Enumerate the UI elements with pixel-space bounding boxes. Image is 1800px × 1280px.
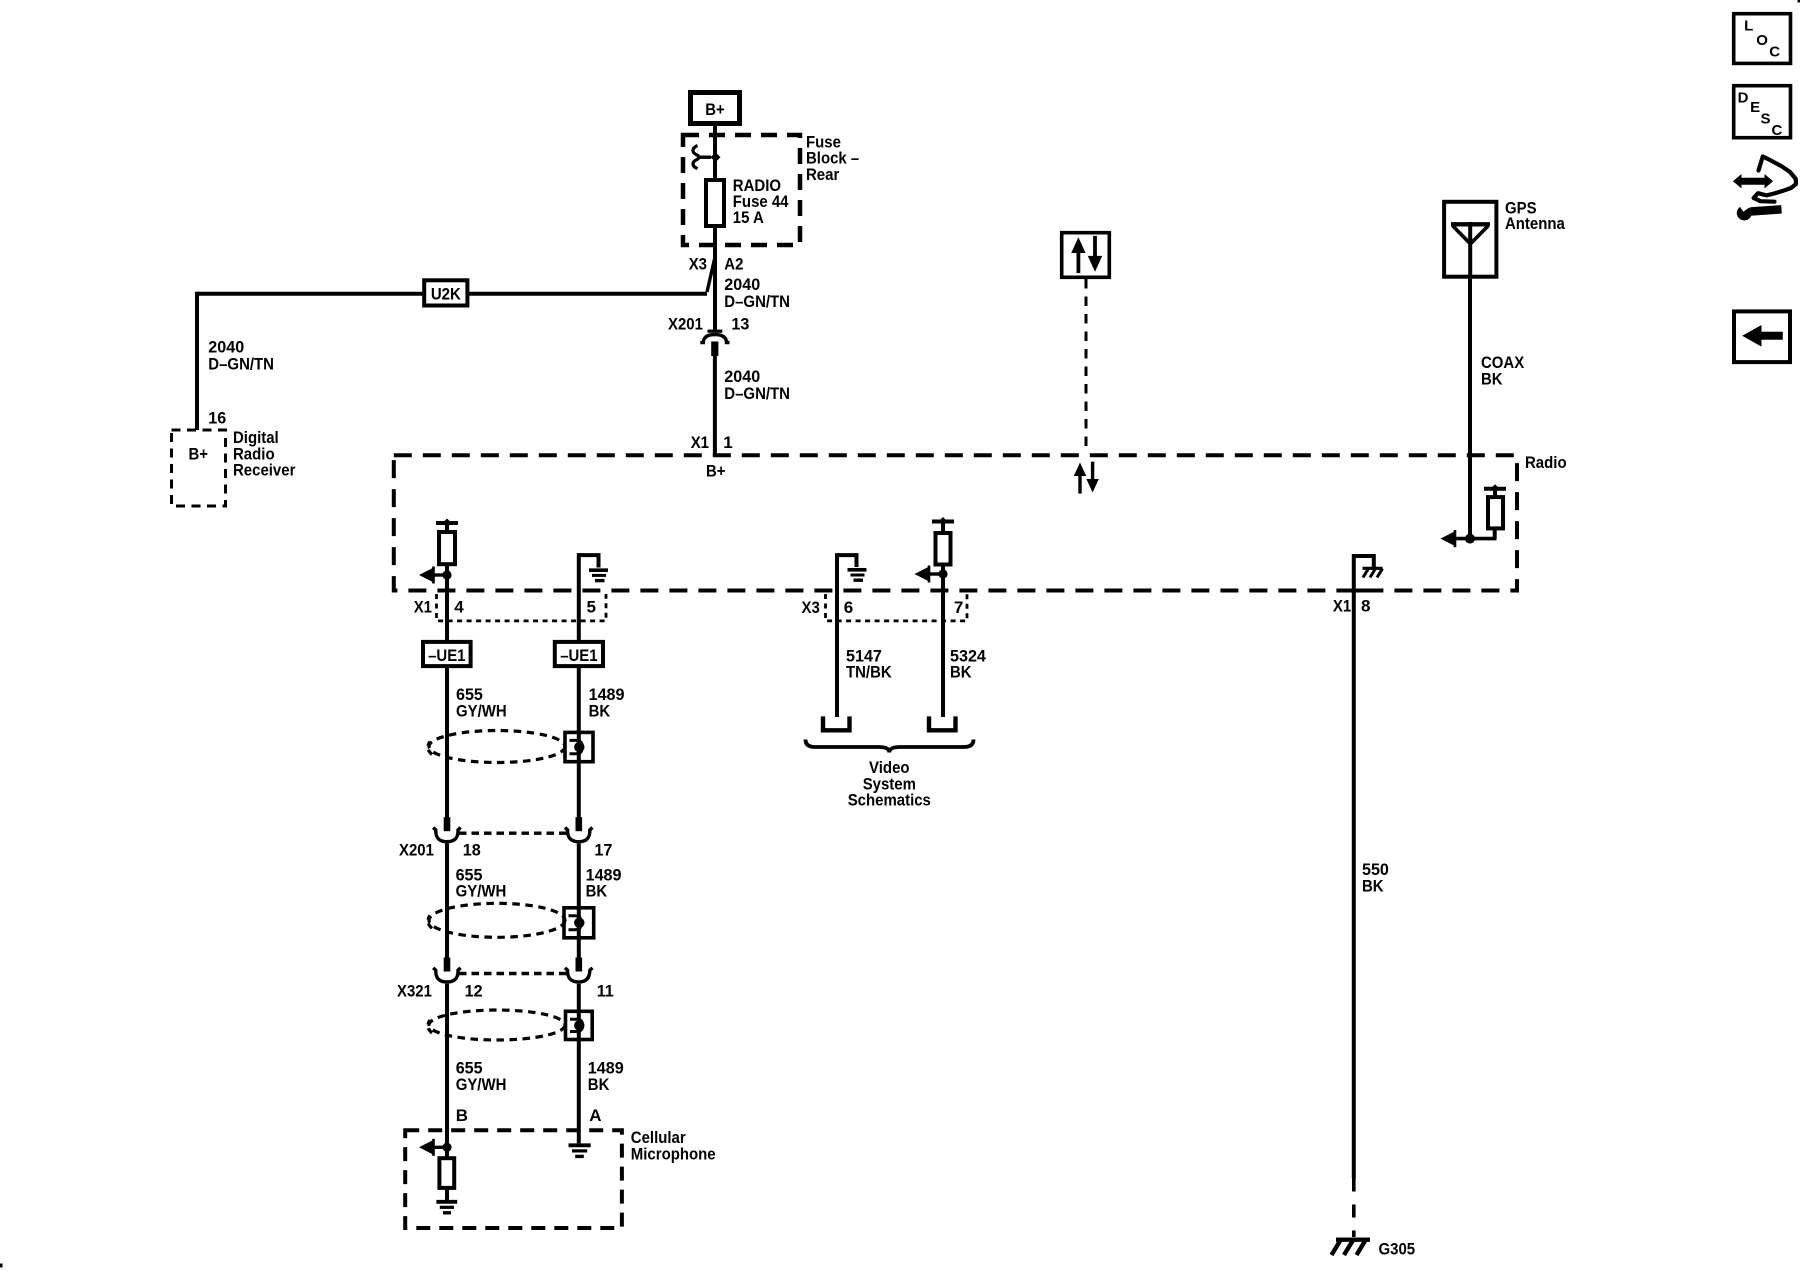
twisted pair ellipse 2: [429, 903, 565, 937]
svg-text:Antenna: Antenna: [1505, 214, 1565, 233]
wire 655 GY/WH segment 2: [445, 843, 449, 958]
fuse block dashed box (Fuse Block - Rear): [683, 135, 800, 245]
svg-text:Radio: Radio: [1525, 453, 1567, 472]
svg-text:G305: G305: [1379, 1239, 1416, 1258]
serial data two-way arrow box: [1062, 233, 1110, 278]
back-arrow box: [1734, 311, 1790, 362]
svg-text:X321: X321: [397, 981, 432, 1000]
connector X201-18 male terminal: [444, 817, 451, 831]
svg-text:X1: X1: [1333, 597, 1351, 616]
twisted pair junction box 1: [565, 732, 593, 761]
radio internal resistor terminal hat (X3-7 branch): [932, 520, 954, 524]
svg-text:BK: BK: [586, 881, 608, 900]
small down arrow at radio boundary: [1091, 462, 1094, 481]
svg-text:A2: A2: [724, 254, 743, 273]
svg-text:X1: X1: [691, 433, 709, 452]
coax wire from GPS antenna: [1468, 279, 1472, 539]
earth ground symbol (mic B branch): [436, 1200, 457, 1204]
radio internal resistor terminal hat (X1-4 branch): [436, 521, 458, 525]
junction node coax to resistor: [1452, 537, 1497, 541]
svg-text:X201: X201: [668, 314, 703, 333]
connector X321-11 male terminal: [576, 958, 583, 972]
svg-text:D–GN/TN: D–GN/TN: [724, 384, 790, 403]
U2K option box: [424, 280, 467, 305]
wire slant joining at X3 A2 pin: [707, 257, 715, 292]
svg-text:C: C: [1772, 122, 1783, 139]
svg-text:O: O: [1756, 32, 1768, 49]
svg-text:12: 12: [465, 981, 483, 1000]
twisted pair ellipse 3: [429, 1010, 565, 1040]
svg-text:6: 6: [844, 598, 853, 617]
fuse RADIO Fuse 44 15A: [706, 180, 724, 226]
diagnostic arrow-wrench icon: [1754, 157, 1796, 202]
svg-text:E: E: [1750, 99, 1760, 116]
brace for Video System Schematics: [806, 740, 974, 753]
video terminal half-box (pin 7 wire): [929, 716, 956, 730]
wire 1489 BK segment 2: [577, 843, 581, 958]
small up arrow at radio boundary: [1078, 474, 1081, 494]
connector X321-11 female cup: [565, 968, 592, 982]
twisted pair ellipse 1: [429, 731, 565, 763]
Cellular Microphone dashed box: [405, 1130, 622, 1228]
svg-text:C: C: [1769, 43, 1780, 60]
earth ground symbol (X3-6 branch): [848, 568, 867, 572]
earth ground symbol (X1-5 branch): [589, 568, 608, 572]
LOC reference box: [1734, 14, 1791, 64]
radio internal chassis ground hook (X1-8): [1354, 556, 1374, 568]
mic internal resistor: [445, 1147, 449, 1158]
junction node on X1-4 branch: [442, 570, 451, 579]
svg-text:BK: BK: [1481, 369, 1503, 388]
junction node mic B lead: [442, 1143, 451, 1152]
connector X201 pin 13 female T-bar and dome: [708, 330, 723, 333]
bus tap horizontal lead with diamond at wire: [698, 155, 711, 158]
svg-text:Receiver: Receiver: [233, 461, 296, 480]
svg-text:X1: X1: [414, 598, 432, 617]
connector X321-12 female cup: [433, 968, 460, 982]
antenna symbol: [1451, 222, 1490, 226]
page corner mark top-right: [1798, 0, 1800, 3]
svg-text:B: B: [456, 1106, 468, 1125]
Digital Radio Receiver dashed box: [172, 430, 226, 506]
connector X3 dotted box (pins 6,7): [826, 594, 968, 621]
svg-text:Schematics: Schematics: [848, 791, 931, 810]
ground G305 chassis symbol: [1332, 1239, 1371, 1256]
svg-text:BK: BK: [950, 663, 972, 682]
svg-text:13: 13: [731, 314, 749, 333]
wire 655 GY/WH segment 1: [445, 666, 449, 818]
internal arrow lead pointing left (X1-4 branch): [431, 573, 447, 576]
page corner mark: [0, 1264, 3, 1268]
connector X201-17 male terminal: [576, 817, 583, 831]
twisted pair junction box 2: [564, 908, 594, 938]
radio internal ground hook (X3-6 branch): [837, 555, 857, 567]
connector X321-12 male terminal: [444, 958, 451, 972]
wire 1489 BK segment 3: [577, 984, 581, 1144]
svg-text:X201: X201: [399, 841, 434, 860]
svg-text:17: 17: [594, 841, 612, 860]
connector X1 dotted box (pins 4,5): [437, 594, 607, 621]
chassis ground symbol (X1-8 internal): [1363, 567, 1383, 570]
video terminal half-box (pin 6 wire): [823, 716, 850, 730]
svg-text:B+: B+: [189, 445, 209, 464]
svg-text:U2K: U2K: [431, 284, 462, 303]
svg-text:S: S: [1761, 111, 1771, 128]
wire left vertical to Digital Radio Receiver: [195, 292, 199, 430]
wrench of icon: [1751, 209, 1782, 211]
B+ power symbol box: [691, 93, 740, 124]
svg-text:B+: B+: [706, 462, 726, 481]
wire X3-6 vertical through connector to video terminal: [835, 553, 839, 717]
svg-text:BK: BK: [1362, 877, 1384, 896]
wire X1-5 branch vertical: [577, 553, 581, 591]
option box -UE1 (right): [555, 642, 603, 666]
svg-text:GY/WH: GY/WH: [456, 701, 507, 720]
svg-text:D–GN/TN: D–GN/TN: [724, 292, 790, 311]
svg-text:GY/WH: GY/WH: [456, 1075, 507, 1094]
svg-text:16: 16: [208, 408, 226, 427]
twisted pair junction box 3: [566, 1011, 593, 1039]
svg-text:4: 4: [454, 598, 464, 617]
wire X1-4 to -UE1: [445, 591, 449, 640]
svg-text:X3: X3: [689, 254, 707, 273]
wire X1-8 (550 BK) down to G305: [1352, 554, 1356, 1179]
internal arrow pointing left (coax branch): [1441, 531, 1456, 546]
wire fuse to connector X3 A2: [713, 226, 717, 330]
svg-text:BK: BK: [589, 701, 611, 720]
svg-text:A: A: [589, 1106, 601, 1125]
wire X201-13 to radio X1-1: [713, 356, 717, 456]
svg-text:D–GN/TN: D–GN/TN: [208, 354, 274, 373]
wire X1-5 to -UE1: [577, 591, 581, 640]
dashed link line to radio: [1085, 279, 1088, 454]
pin tick X1-8 at radio box edge: [1354, 589, 1368, 593]
svg-text:–UE1: –UE1: [560, 646, 597, 665]
connector X201 dashed link: [459, 832, 567, 835]
connector X201 pin 13 male terminal: [711, 342, 718, 357]
DESC reference box: [1734, 86, 1791, 138]
svg-text:TN/BK: TN/BK: [846, 663, 892, 682]
connector X201-17 female cup: [565, 828, 592, 842]
svg-text:11: 11: [597, 981, 614, 1000]
svg-text:Microphone: Microphone: [631, 1144, 716, 1163]
radio internal ground hook (X1-5 branch): [579, 555, 599, 567]
option box -UE1 (left): [423, 642, 471, 666]
svg-text:15 A: 15 A: [733, 208, 764, 227]
svg-text:7: 7: [954, 598, 963, 617]
connector X321 dashed link: [459, 972, 567, 975]
up arrow in box: [1077, 252, 1081, 273]
svg-text:GY/WH: GY/WH: [456, 881, 507, 900]
radio internal resistor terminal hat (coax branch): [1484, 487, 1506, 491]
svg-text:L: L: [1744, 18, 1753, 35]
connector X201-18 female cup: [433, 828, 460, 842]
svg-text:B+: B+: [705, 100, 725, 119]
svg-text:1: 1: [723, 433, 732, 452]
double-headed arrow of icon: [1740, 178, 1766, 185]
svg-text:Rear: Rear: [806, 165, 840, 184]
svg-text:5: 5: [587, 598, 596, 617]
radio internal resistor (coax branch): [1488, 497, 1503, 528]
wire 1489 BK segment 1: [577, 666, 581, 818]
Radio dashed box: [394, 455, 1517, 590]
wire 655 GY/WH segment 3: [445, 984, 449, 1148]
svg-text:X3: X3: [802, 598, 820, 617]
wire B+ box to fuse block: [713, 126, 717, 181]
mic internal arrow pointing left: [431, 1146, 447, 1149]
svg-text:BK: BK: [588, 1075, 610, 1094]
svg-text:D: D: [1738, 89, 1749, 106]
svg-text:8: 8: [1361, 597, 1370, 616]
down arrow in box: [1093, 236, 1097, 257]
radio internal resistor (X3-7 branch): [936, 533, 951, 565]
svg-text:–UE1: –UE1: [428, 646, 465, 665]
earth ground symbol (mic A branch): [569, 1143, 591, 1147]
radio internal resistor (X1-4 branch): [439, 532, 455, 564]
GPS Antenna box: [1444, 202, 1496, 277]
wire U2K horizontal: [197, 292, 707, 296]
junction node on X3-7 branch: [938, 569, 947, 578]
svg-text:18: 18: [463, 841, 481, 860]
internal arrow lead pointing left (X3-7 branch): [927, 572, 943, 575]
fuse block internal bus tap squiggle: [693, 146, 699, 169]
